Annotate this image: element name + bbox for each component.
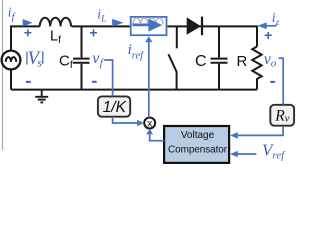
svg-text:C: C (195, 53, 207, 70)
svg-text:Voltage: Voltage (181, 130, 215, 141)
svg-text:if: if (8, 5, 17, 23)
svg-text:iL: iL (97, 7, 106, 25)
svg-text:o: o (271, 58, 277, 70)
svg-text:+: + (24, 24, 32, 40)
svg-text:Cf: Cf (59, 53, 73, 71)
svg-text:R: R (237, 53, 248, 70)
svg-text:f: f (100, 57, 105, 69)
svg-text:+: + (264, 27, 272, 43)
svg-text:s: s (37, 55, 42, 69)
svg-text:1/K: 1/K (103, 99, 127, 116)
svg-text:Vref: Vref (262, 141, 286, 162)
svg-text:+: + (89, 24, 97, 40)
svg-text:iref: iref (128, 42, 146, 62)
svg-text:x: x (147, 118, 153, 130)
svg-text:Lf: Lf (50, 29, 61, 46)
svg-text:Compensator: Compensator (168, 145, 228, 156)
